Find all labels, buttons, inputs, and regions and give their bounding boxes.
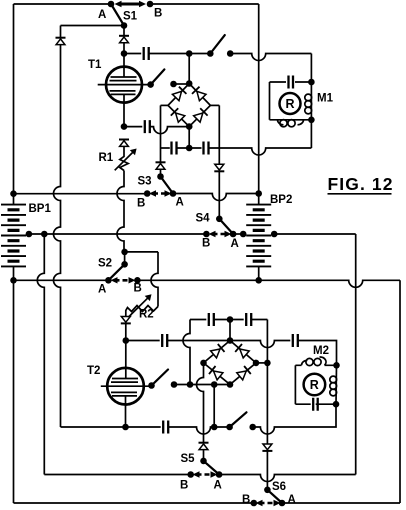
capacitor C11 (M2 bottom)	[313, 398, 318, 411]
switch S2 double arrow (dashed)	[111, 277, 136, 283]
wire: top rail right segment (S1 contact B to right corner)	[150, 3, 259, 5]
node: unlabeled lower switch pivot contact	[226, 424, 233, 431]
node: M2 top-right terminal	[333, 362, 340, 369]
wire: S5 rail from contact A with hop over x267.4 to corner x355.7	[219, 475, 356, 482]
diode D11 (bridge1 upper-left)	[172, 87, 186, 101]
tube T2 grid line	[101, 385, 152, 387]
tube T1 bottom lead	[123, 94, 125, 126]
diode D13 (bridge1 lower-left)	[171, 108, 185, 122]
variable resistor R1 (zigzag on vertical wire with arrow)	[120, 146, 128, 170]
switch S5 pivot node	[200, 458, 207, 465]
tube T1 envelope	[106, 67, 142, 103]
wire: row y53.5 from T1 anode node to capacitor C1	[124, 53, 141, 55]
motor M1 frame top edge with capacitor C5	[270, 81, 312, 83]
node: BP2 right tap dot	[271, 231, 278, 238]
svg-text:S4: S4	[196, 213, 211, 225]
motor M1 right coil loops	[305, 94, 312, 114]
FIG. 12 underline	[328, 193, 392, 195]
switch S3 arm	[161, 177, 174, 194]
switch S1 arm (from contact A down to second rail)	[111, 4, 124, 26]
switch arm from T2 grid (open, tilted up-right)	[152, 370, 169, 386]
wire: filter rail y148 from C4 across x219.3 with hop over x258.7 to M1 bottom corner	[209, 148, 312, 155]
bridge rectifier 2 diamond frame	[204, 341, 257, 385]
node: BP1 tap dot 2 (junction with x44.5 vertical)	[41, 231, 48, 238]
motor M2 right edge	[335, 365, 338, 404]
svg-text:S3: S3	[138, 176, 152, 188]
node: bridge2 left corner	[200, 360, 207, 367]
node: S6 contact A	[279, 500, 286, 507]
wire: bottom rail y503 from S6 contact A to right edge corner	[282, 502, 400, 504]
unlabeled lower switch arm	[230, 412, 247, 427]
node: S4 contact B	[203, 231, 210, 238]
wire: T1 cathode row y126.6 to capacitor C2	[124, 126, 142, 128]
node: bridge1 grid-side contact (173.5,84)	[170, 81, 177, 88]
svg-text:A: A	[176, 197, 184, 209]
node: S1 contact B	[147, 1, 154, 8]
wire: BP1 tap row y234 from battery plate to S4 contact B	[26, 233, 206, 235]
switch S6 arm	[267, 490, 282, 503]
capacitor C1 (series in row y53.5)	[144, 47, 149, 60]
svg-text:R2: R2	[139, 309, 154, 321]
node: filter rail junction (189.2,148)	[186, 145, 193, 152]
wire: second rail y25.5 from x60.5 corner to S1 arm contact	[61, 25, 125, 27]
node: S5 contact B	[187, 471, 194, 478]
node: M2 bottom-right terminal	[333, 401, 340, 408]
switch S4 arm	[219, 219, 233, 234]
wire: BP1 top lead	[13, 194, 15, 205]
wire: T2 anode row y340.5 to capacitor C9	[126, 340, 160, 342]
node: unlabeled switch right contact (230.2,53.5)	[227, 50, 234, 57]
svg-text:R1: R1	[99, 152, 114, 164]
wire: cathode rail from contact with hop over x267.4 to M2 bottom corner	[253, 404, 336, 434]
node: lower switch open contact	[249, 424, 256, 431]
node: S6 contact B	[251, 500, 258, 507]
node: grid row junction with x190 vertical	[187, 381, 194, 388]
wire: BP1 top row y193.5 from BP1 to S3 contact B	[14, 193, 148, 195]
wire: from D4 down to S3 pivot	[160, 169, 162, 174]
node: T2 grid-side contact (174,384.5)	[171, 381, 178, 388]
node: bridge2 bottom node	[227, 381, 234, 388]
svg-text:M1: M1	[317, 93, 334, 105]
switch S3 pivot node	[157, 173, 164, 180]
R1 arrow	[115, 149, 137, 171]
diode D6 (below R2, pointing down)	[121, 317, 131, 324]
motor M2 bottom edge with capacitor C11	[295, 403, 336, 405]
svg-text:B: B	[180, 480, 188, 492]
wire: filter rail between C3 and C4	[177, 147, 202, 149]
capacitor C6 (bypass row left)	[209, 313, 214, 326]
R2 arrow	[128, 294, 152, 317]
node: T1 cathode junction (124,126.6)	[121, 123, 128, 130]
wire: anode row from bridge2 top with hop over x267.4, then capacitor C8 lead	[230, 341, 290, 348]
wire: center stub from bypass row down to bridge2 top node	[229, 320, 231, 341]
svg-text:M2: M2	[313, 345, 329, 357]
wire: vertical x311.4 from row y53.5 corner down to M1 top-right	[310, 54, 312, 83]
svg-text:S1: S1	[123, 11, 138, 23]
node: bridge1 feed junction (189.2,53.5)	[186, 50, 193, 57]
wire: bypass caps row y319.5 corner from x190 vertical	[190, 319, 206, 321]
node: S2 junction with R1 line	[121, 249, 128, 256]
diode D1 (on x60.5 line, pointing up)	[56, 38, 66, 45]
bridge rectifier 1 diamond frame	[168, 84, 210, 127]
svg-text:B: B	[134, 283, 142, 295]
svg-text:FIG. 12: FIG. 12	[328, 174, 394, 194]
wire: BP1 bottom lead	[13, 266, 15, 280]
wire: right vertical x258.7 from top rail down to BP2 top	[258, 4, 260, 205]
wire: vertical x189.2 from row y53.5 to bridge1 top node	[188, 54, 190, 84]
switch S6 pivot node	[264, 487, 271, 494]
wire: cathode rail from C10 with hop over x203.5 to switch pivot	[168, 427, 229, 434]
svg-text:BP1: BP1	[29, 203, 52, 215]
tube T1 upper plates	[110, 77, 137, 81]
wire: S4 contact A to BP2 left tap	[233, 233, 246, 235]
node: bridge2 right corner	[253, 360, 260, 367]
wire: grid row y384.5 from contact to bridge2 bottom node (x203.5 hops over)	[174, 384, 230, 386]
wire: vertical x267.4 from bypass corner down to bridge2 right junction	[266, 320, 268, 363]
wire: vertical x267.4 down to diode D8 (crosses y427 via rail hop)	[266, 363, 268, 444]
capacitor C10 (series in cathode rail)	[163, 421, 168, 434]
motor M2 top coil loops	[302, 357, 327, 366]
diode D14 (bridge1 lower-right)	[194, 108, 208, 122]
wire: row y280.3 from BP2 with hop over x355.7 to right edge corner	[259, 280, 400, 287]
svg-text:R: R	[310, 378, 319, 392]
svg-text:A: A	[98, 9, 106, 21]
node: S2 contact A	[105, 277, 112, 284]
switch S6 double arrow (dashed)	[256, 500, 281, 506]
wire: from D5 down to S4 pivot	[218, 171, 220, 216]
diode D21 (bridge2 upper-left)	[211, 344, 225, 358]
switch arm from T1 grid (open, tilted up-right)	[151, 69, 165, 84]
svg-text:A: A	[98, 284, 106, 296]
diode D7 (above S5 pivot, pointing up)	[199, 443, 209, 450]
capacitor C3 (filter rail left)	[172, 142, 177, 155]
wire: cathode row from C2 with hop over x160.5 to bridge1 bottom node	[150, 127, 189, 134]
motor M1 rotor circle R	[280, 93, 301, 114]
node: junction of right extension with x267.4 vertical	[264, 360, 271, 367]
wire: top rail left segment (BP1+ to S1 contact A)	[14, 3, 112, 5]
switch S4 double arrow (dashed)	[209, 231, 232, 237]
node: grid row junction with x214.2 vertical	[211, 381, 218, 388]
capacitor C2 (series in cathode row)	[145, 120, 150, 133]
node: BP2 left tap dot	[240, 231, 247, 238]
node: bridge1 bottom node	[186, 123, 193, 130]
node: BP1 positive terminal	[10, 190, 17, 197]
node: T1 anode junction y53.5	[121, 50, 128, 57]
diode D4 (on x160.5 line above S3 pivot, pointing up)	[156, 162, 166, 169]
wire: S2 pivot stub	[124, 252, 126, 264]
wire: vertical x219.3 from bridge1 right corner down to diode D5	[218, 105, 220, 164]
diode D5 (on x219.3 line above S4 pivot, pointing down)	[214, 164, 224, 171]
capacitor C4 (filter rail right)	[204, 142, 209, 155]
svg-text:T2: T2	[87, 365, 100, 377]
motor M2 right coil loops	[330, 376, 337, 396]
wire: vertical x190 from bypass corner with hop over y340.5 down to grid row	[183, 320, 190, 385]
wire: S5 rail y474.5 from left corner to S5 contact B	[44, 474, 190, 476]
node: bypass row center junction	[227, 316, 234, 323]
node: S1 arm contact on second rail	[121, 22, 128, 29]
switch S3 double arrow (dashed)	[149, 190, 172, 196]
wire: row y53.5 from C1 to bridge1 feed node and switch contact	[149, 53, 211, 55]
switch S2 arm	[108, 264, 124, 280]
capacitor C9 (series in T2 anode row)	[162, 334, 167, 347]
switch S2 pivot node	[121, 261, 128, 268]
motor M1 right edge	[310, 82, 312, 120]
wire: vertical x158 from corner with hop over y280.3 down to R2	[151, 252, 158, 307]
diode D12 (bridge1 upper-right)	[192, 87, 206, 101]
wire: T2 cathode rail y427 from left corner to capacitor C10	[61, 426, 161, 428]
node: S4 contact A	[230, 231, 237, 238]
wire: bridge1 right corner extension to x219.3	[210, 104, 219, 106]
wire: short vertical from D2 to T1 anode node	[123, 43, 125, 54]
node: bridge2 top node	[227, 337, 234, 344]
tube T2 bottom lead	[125, 396, 127, 427]
node: unlabeled switch left contact (210.3,53.5)	[207, 50, 214, 57]
svg-text:B: B	[154, 8, 162, 20]
battery BP2	[246, 205, 271, 267]
wire: vertical x60.5 upper lead to diode D1	[60, 26, 62, 38]
motor M1 bottom edge	[270, 119, 312, 121]
capacitor C5 (M1 top)	[289, 76, 294, 89]
wire: anode row from C8 to corner x336.5 down to M2 top-right	[298, 341, 337, 366]
wire: right edge vertical x400 down to bottom rail	[399, 280, 401, 503]
switch S5 arm	[204, 461, 220, 475]
tube T2 top lead	[125, 341, 127, 379]
switch S5 double arrow (dashed)	[193, 471, 218, 477]
diode D3 (below T1 cathode node, pointing up)	[119, 140, 129, 147]
wire: bypass row from C7 to corner x267.4	[251, 319, 267, 321]
wire: vertical x214.2 from grid row down to cathode row	[213, 385, 215, 428]
wire: from D8 down to S6 pivot	[266, 451, 268, 487]
node: BP2 top junction	[255, 190, 262, 197]
wire: bypass row between C6 and C7	[214, 319, 244, 321]
wire: BP2 bottom lead	[258, 266, 260, 280]
node: M1 bottom-right terminal	[308, 117, 315, 124]
svg-text:A: A	[288, 494, 296, 506]
motor M2 top edge with coil loops	[295, 364, 336, 366]
wire: row y193.5 from S3 contact A with hop over x219.3 to BP2 top node	[173, 194, 259, 201]
svg-text:B: B	[202, 238, 210, 250]
diode D23 (bridge2 lower-left)	[209, 366, 223, 380]
svg-text:S5: S5	[181, 453, 196, 465]
motor M2 rotor circle R	[304, 374, 326, 396]
wire: long vertical x60.5 with hops over rows y193.5, y234, y280.3 down to T2 cathode rail corner	[54, 45, 61, 427]
svg-text:A: A	[231, 238, 239, 250]
svg-text:S2: S2	[98, 258, 112, 270]
svg-text:B: B	[137, 198, 145, 210]
tube T2 upper plates	[111, 379, 138, 383]
node: cathode rail junction with x214.2 vertical	[211, 424, 218, 431]
node: S3 contact B	[144, 190, 151, 197]
wire: anode row from C9 to bridge2 top node (x190 vertical hops over)	[167, 340, 230, 342]
svg-text:S6: S6	[272, 481, 286, 493]
tube T2 lower plates	[111, 392, 137, 396]
wire: filter rail y148 left segment to capacitor C3	[161, 147, 170, 149]
switch S1 double arrow	[115, 1, 147, 7]
wire: vertical x311.4 from M1 bottom-right down to filter rail corner	[310, 120, 312, 148]
svg-text:T1: T1	[88, 59, 102, 71]
wire: contact stub to bridge1 top node	[174, 83, 190, 85]
node: S3 contact A	[170, 190, 177, 197]
capacitor C8 (series in anode row right)	[293, 334, 298, 347]
tube T1 grid line	[98, 84, 151, 86]
diode D2 (above T1 anode node, pointing up)	[119, 36, 129, 43]
wire: bridge1 bottom node down to filter rail y148	[188, 127, 190, 148]
motor M1 bottom coil loops	[278, 120, 304, 127]
wire: left edge vertical from BP1 negative down to bottom rail	[13, 280, 15, 503]
node: T2 anode junction	[123, 337, 130, 344]
wire: bottom rail y503 from left corner to S6 contact B	[14, 502, 254, 504]
diode D22 (bridge2 upper-right)	[235, 344, 249, 358]
svg-text:R: R	[286, 97, 295, 111]
svg-text:BP2: BP2	[270, 194, 292, 206]
wire: vertical x160.5 from bridge1 left corner down to diode D4	[160, 105, 162, 162]
wire: BP2 right tap row y234 to corner x355.7	[271, 233, 356, 235]
battery BP1	[1, 205, 26, 267]
tube T1 lower plates	[110, 91, 136, 95]
diode D8 (above S6 pivot, pointing down)	[262, 444, 272, 451]
wire: BP1 bottom row y280.3 from BP1 to S2 contact A	[14, 279, 109, 281]
variable resistor R2 (zigzag with arrow)	[126, 306, 158, 317]
node: BP2 negative terminal	[255, 277, 262, 284]
node: S5 contact A	[216, 471, 223, 478]
diode D24 (bridge2 lower-right)	[237, 366, 251, 380]
wire: row y53.5 from switch contact with hop over x258.7 to M1 top corner	[230, 54, 311, 61]
wire: from D6 down to T2 anode node	[125, 323, 127, 340]
node: bridge1 top node	[186, 80, 193, 87]
node: BP1 tap dot 1	[26, 231, 33, 238]
tube T1 top lead	[123, 54, 125, 78]
wire: row y280.3 from S2 contact B to BP2 bottom (x158 vertical hops over)	[137, 279, 258, 281]
wire: left edge vertical from top rail down to BP1 top	[13, 4, 15, 194]
node: T2 grid terminal	[148, 382, 155, 389]
wire: vertical x44.5 from BP1 tap with hop over y280.3 down to S5 rail corner	[37, 234, 44, 475]
node: BP1 negative terminal	[10, 277, 17, 284]
wire: bridge2 right corner extension to x267.4	[256, 362, 267, 364]
wire: bridge1 left corner extension to x160.5	[161, 104, 169, 106]
capacitor C7 (bypass row right)	[246, 313, 251, 326]
switch S4 pivot node	[216, 216, 223, 223]
svg-text:A: A	[214, 480, 222, 492]
tube T2 envelope	[107, 368, 144, 405]
wire: vertical x203.5 from bridge2 left corner with hop over y384.5 down to diode D7	[197, 363, 204, 443]
node: S1 contact A	[108, 1, 115, 8]
wire: vertical x124 from S1 contact down to diode D2	[123, 26, 125, 36]
wire: vertical x355.7 from BP2 tap down to S5 rail	[355, 234, 357, 475]
unlabeled switch arm at row y53.5	[210, 35, 225, 53]
motor M2 left edge	[294, 365, 296, 404]
motor M1 left edge	[269, 82, 271, 120]
wire: from D7 down to S5 pivot	[203, 450, 205, 458]
node: T2 cathode junction	[122, 424, 129, 431]
wire: vertical x124 from R1 with hops over y193.5 and y234 down to S2 junction	[117, 171, 124, 252]
node: M1 top-right terminal	[308, 79, 315, 86]
node: T1 grid terminal	[147, 81, 154, 88]
wire: S2 junction to R2 feed corner	[125, 251, 158, 253]
svg-text:B: B	[242, 494, 250, 506]
node: S2 contact B	[134, 277, 141, 284]
